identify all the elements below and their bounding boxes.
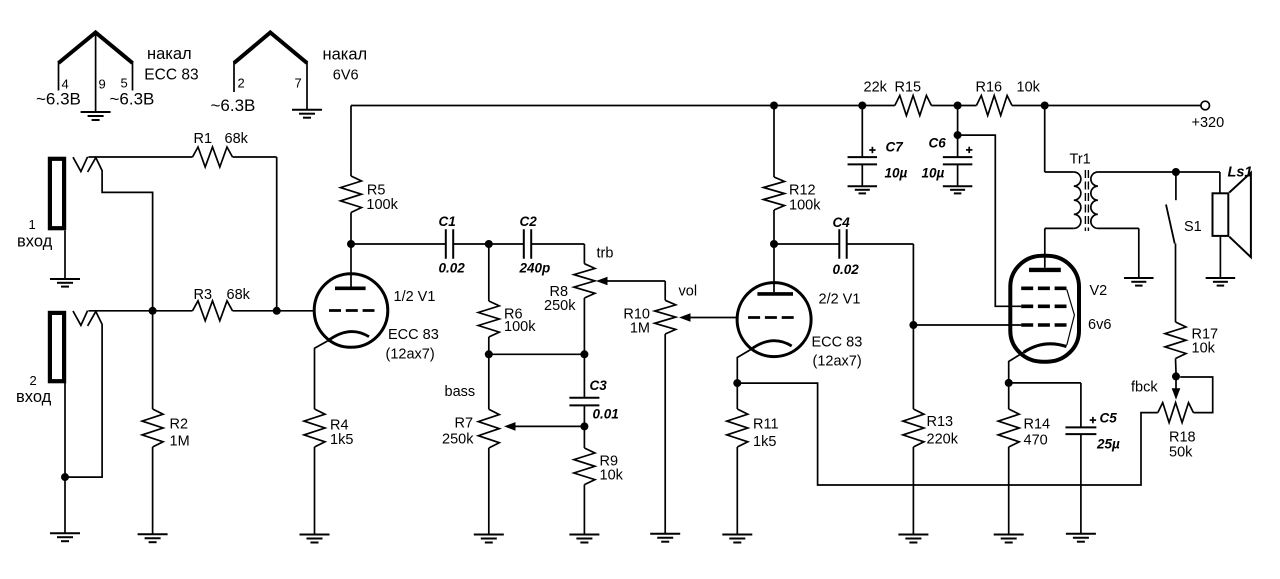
capacitor C2: [524, 229, 531, 259]
ground C5: [1066, 534, 1096, 542]
wire feedback cathode to R18: [737, 383, 1158, 485]
label C5 value 25u: [1096, 437, 1120, 452]
svg-text:7: 7: [295, 76, 302, 91]
svg-text:470: 470: [1024, 433, 1048, 449]
tube V2 screen grid: [1021, 304, 1066, 308]
label nakal 6V6: [323, 46, 368, 84]
resistor R17: [1165, 322, 1186, 373]
potentiometer R7: [478, 354, 499, 534]
capacitor C4: [839, 229, 846, 259]
svg-text:68k: 68k: [227, 287, 251, 303]
svg-text:9: 9: [99, 77, 106, 92]
svg-text:R1: R1: [194, 131, 213, 147]
wire R1 to grid node: [233, 157, 277, 311]
label C7 value 10u: [885, 166, 908, 181]
label R1 68k: [194, 131, 249, 147]
svg-text:C3: C3: [590, 378, 608, 393]
ground R4: [300, 535, 330, 543]
svg-text:10µ: 10µ: [885, 166, 908, 181]
wire C4 to R13 node: [847, 244, 914, 325]
R7 wiper arrow: [504, 422, 584, 431]
svg-text:R7: R7: [455, 416, 474, 432]
wire Tr1 primary to V2 plate: [1045, 228, 1074, 230]
ground R7: [474, 535, 504, 543]
resistor R3: [193, 301, 233, 321]
tube V2 cathode: [1024, 344, 1067, 353]
ground R11: [722, 535, 752, 543]
svg-text:1k5: 1k5: [753, 434, 776, 450]
label nakal ECC 83: [144, 45, 198, 83]
svg-text:68k: 68k: [225, 131, 249, 147]
ground C6: [943, 186, 973, 193]
node jack J2 sleeve-switch junction: [61, 473, 69, 481]
node C1/R6/C2: [485, 240, 493, 248]
label input 2: [16, 373, 52, 406]
resistor R14: [998, 383, 1019, 534]
tube V2 beam-cathode link: [1067, 290, 1075, 346]
tube V1a grid: [329, 309, 375, 312]
ground heater V1: [81, 112, 111, 120]
ground heater V2: [292, 110, 322, 118]
node C6/screen tap: [954, 131, 962, 139]
svg-text:Ls1: Ls1: [1228, 165, 1253, 181]
svg-text:C7: C7: [886, 140, 905, 155]
C7 polarity +: [869, 147, 875, 153]
node V1b cathode junction: [733, 379, 741, 387]
svg-text:R14: R14: [1024, 417, 1051, 433]
wire V1b cathode to R11: [737, 350, 750, 384]
svg-text:R12: R12: [789, 183, 816, 199]
svg-text:100k: 100k: [366, 197, 398, 213]
svg-text:R2: R2: [170, 417, 189, 433]
resistor R1: [193, 147, 233, 167]
svg-text:10k: 10k: [1017, 80, 1041, 96]
resistor R13: [903, 325, 924, 534]
resistor R6: [478, 244, 499, 354]
potentiometer R18: [1158, 403, 1194, 423]
capacitor C1: [446, 229, 453, 259]
svg-text:1k5: 1k5: [330, 432, 353, 448]
label R5 100k: [366, 183, 398, 213]
capacitor C7: [848, 106, 878, 186]
wire jack J2 sleeve: [64, 383, 66, 533]
label R8 250k: [544, 284, 576, 314]
svg-text:S1: S1: [1184, 219, 1202, 235]
svg-text:вход: вход: [16, 388, 52, 406]
label trb: [597, 246, 614, 262]
tube V1b ECC83 envelope: [737, 283, 811, 357]
ground jack J1: [50, 279, 80, 287]
ground Tr1 secondary: [1124, 278, 1154, 286]
svg-text:V2: V2: [1090, 283, 1108, 299]
svg-text:10k: 10k: [1192, 341, 1216, 357]
svg-text:+320: +320: [1192, 115, 1225, 131]
wire jack J1 tip to R1: [88, 156, 192, 158]
node C4/R13/V2 grid: [909, 321, 917, 329]
tube V1b plate: [757, 244, 793, 294]
wire rail to Tr1 primary: [1045, 106, 1074, 173]
svg-text:~6.3В: ~6.3В: [211, 96, 256, 115]
speaker Ls1: [1213, 173, 1251, 258]
label ~6.3V 6V6: [211, 96, 256, 115]
wire S1 node to speaker: [1176, 172, 1220, 193]
wire R5 node to C1: [351, 243, 446, 245]
svg-text:1: 1: [29, 217, 36, 232]
svg-text:~6.3В: ~6.3В: [110, 89, 155, 108]
svg-text:22k: 22k: [864, 80, 888, 96]
label C7: [886, 140, 905, 155]
pin 7 label: [295, 76, 302, 91]
heater symbol V2 6V6 filament: [234, 33, 307, 110]
label C6 value 10u: [922, 166, 945, 181]
tube V1a cathode: [328, 332, 370, 341]
label Ls1: [1228, 165, 1253, 181]
label bass: [445, 384, 476, 400]
svg-text:1M: 1M: [630, 321, 650, 337]
wire node to C2: [489, 243, 524, 245]
label C4 value 0.02: [833, 262, 860, 277]
label R7 250k: [442, 416, 474, 448]
node R12/V1b plate/C4: [770, 240, 778, 248]
node R6/R7: [485, 350, 493, 358]
jack J1 switch contact wire: [88, 158, 153, 311]
wire R12 node to C4: [774, 243, 839, 245]
svg-text:25µ: 25µ: [1096, 437, 1120, 452]
svg-text:220k: 220k: [927, 432, 959, 448]
Tr1 secondary winding: [1091, 172, 1098, 228]
wire V2 cathode to R14: [1009, 352, 1024, 383]
svg-text:ECC 83: ECC 83: [388, 327, 439, 343]
svg-text:50k: 50k: [1169, 445, 1193, 461]
potentiometer R8: [574, 264, 595, 355]
tube V2 beam plates: [1021, 286, 1066, 290]
potentiometer R10: [655, 281, 676, 533]
node rail/R12: [770, 102, 778, 110]
label +320: [1192, 115, 1225, 131]
node R1/R3 junction: [273, 307, 281, 315]
resistor R9: [574, 426, 595, 534]
svg-text:2: 2: [30, 373, 37, 388]
label R13 220k: [927, 414, 959, 448]
node R8/C3: [580, 350, 588, 358]
svg-text:C6: C6: [929, 136, 947, 151]
tube V1a plate: [335, 244, 366, 288]
svg-text:0.02: 0.02: [439, 261, 466, 276]
jack J1 tip contact: [73, 157, 88, 172]
label 1/2 V1: [394, 289, 436, 305]
resistor R11: [727, 383, 748, 534]
resistor R2: [142, 311, 163, 534]
capacitor C5: [1009, 383, 1097, 533]
label R12 100k: [789, 183, 821, 214]
label C2 value 240p: [519, 261, 551, 276]
svg-text:C1: C1: [439, 214, 456, 229]
R18 wiper arrow: [1172, 376, 1181, 399]
label 2/2 V1: [819, 292, 861, 308]
svg-text:C2: C2: [520, 214, 538, 229]
label R14 470: [1024, 417, 1051, 449]
svg-text:вход: вход: [17, 232, 53, 250]
wire R3 left: [153, 310, 193, 312]
input jack J2 body: [50, 313, 64, 381]
pin 4 label: [62, 77, 69, 92]
svg-text:накал: накал: [147, 45, 192, 63]
label C1 value 0.02: [439, 261, 466, 276]
jack J2 tip contact: [73, 311, 88, 326]
node secondary/S1/speaker: [1172, 168, 1180, 176]
label R10 1M: [623, 307, 650, 337]
svg-text:2: 2: [238, 76, 245, 91]
resistor R12: [764, 106, 785, 245]
svg-text:1M: 1M: [170, 434, 190, 450]
label R17 10k: [1192, 327, 1219, 357]
ground R13: [898, 535, 928, 543]
label C5: [1100, 411, 1118, 426]
svg-text:R11: R11: [753, 417, 779, 433]
wire to V2 grid: [913, 324, 1021, 326]
label R9 10k: [600, 454, 624, 484]
svg-text:10µ: 10µ: [922, 166, 945, 181]
label 22k R15: [864, 80, 922, 96]
label vol: [679, 284, 698, 300]
ground R10: [650, 534, 680, 542]
label R3 68k: [194, 287, 251, 303]
svg-text:C4: C4: [833, 215, 851, 230]
label R11 1k5: [753, 417, 779, 451]
ground R9: [569, 535, 599, 543]
tube V2 plate: [1029, 229, 1061, 270]
svg-text:1/2 V1: 1/2 V1: [394, 289, 436, 305]
svg-text:6v6: 6v6: [1088, 317, 1111, 333]
svg-text:240p: 240p: [519, 261, 551, 276]
input jack J1 body: [50, 159, 64, 228]
wire B+ rail: [351, 105, 1201, 107]
terminal +320: [1201, 101, 1210, 110]
wire R6 to C3 node row: [489, 353, 585, 355]
Tr1 core: [1085, 170, 1088, 231]
ground R2: [138, 534, 168, 542]
label Tr1: [1070, 152, 1091, 168]
capacitor C3: [569, 354, 599, 426]
label R18 50k: [1169, 430, 1196, 461]
svg-text:накал: накал: [323, 46, 368, 64]
wire V1a cathode to R4: [315, 341, 328, 409]
svg-text:R16: R16: [976, 80, 1003, 96]
wire Tr1 secondary bottom to ground: [1098, 228, 1139, 277]
svg-text:R3: R3: [194, 287, 213, 303]
tube V1b grid: [748, 316, 798, 319]
node C3/R9 wiper junction: [580, 422, 588, 430]
svg-text:2/2 V1: 2/2 V1: [819, 292, 861, 308]
svg-text:0.01: 0.01: [593, 407, 619, 422]
svg-text:(12ax7): (12ax7): [813, 354, 862, 370]
label ~6.3V right: [110, 89, 155, 108]
svg-text:6V6: 6V6: [333, 68, 359, 84]
svg-text:250k: 250k: [442, 432, 474, 448]
pin 5 label: [121, 76, 128, 91]
label C4: [833, 215, 851, 230]
wire jack J1 sleeve: [64, 231, 66, 279]
wire speaker to ground: [1219, 237, 1221, 278]
tube V1a ECC83 envelope: [314, 274, 388, 348]
label 6v6: [1088, 317, 1111, 333]
svg-text:fbck: fbck: [1131, 380, 1158, 396]
jack J2 switch contact wire: [65, 312, 102, 478]
node R17/R18 wiper: [1172, 372, 1180, 380]
tube V1b cathode: [751, 341, 792, 350]
tube V2 6V6 envelope: [1010, 256, 1079, 362]
label S1: [1184, 219, 1202, 235]
node rail/C7: [858, 102, 866, 110]
svg-text:R13: R13: [927, 414, 954, 430]
svg-text:(12ax7): (12ax7): [386, 347, 435, 363]
Tr1 primary winding: [1074, 172, 1081, 228]
pin 2 label: [238, 76, 245, 91]
svg-text:bass: bass: [445, 384, 476, 400]
svg-text:ECC 83: ECC 83: [144, 67, 198, 84]
node R5/C1 junction: [347, 240, 355, 248]
wire R3 to V1 grid: [233, 310, 315, 312]
resistor R5: [341, 106, 362, 245]
switch S1: [1166, 172, 1176, 322]
C5 polarity +: [1090, 417, 1096, 423]
svg-text:vol: vol: [679, 284, 698, 300]
label fbck: [1131, 380, 1158, 396]
label V1a ECC 83 (12ax7): [386, 327, 439, 363]
wire C2 to R8: [531, 244, 584, 264]
wire C1 to node: [453, 243, 489, 245]
svg-text:5: 5: [121, 76, 128, 91]
node rail/Tr1 primary: [1041, 102, 1049, 110]
wire R18 right to wiper node: [1180, 377, 1213, 413]
wire Tr1 secondary top: [1098, 171, 1176, 173]
svg-text:Tr1: Tr1: [1070, 152, 1091, 168]
label C3 value 0.01: [593, 407, 619, 422]
svg-text:C5: C5: [1100, 411, 1118, 426]
heater symbol V1 ECC83 filament: [59, 33, 133, 113]
svg-text:trb: trb: [597, 246, 614, 262]
label C6: [929, 136, 947, 151]
pin 9 label: [99, 77, 106, 92]
svg-text:ECC 83: ECC 83: [812, 335, 863, 351]
tube V2 control grid: [1021, 323, 1066, 327]
node V2 cathode junction: [1005, 379, 1013, 387]
resistor R16: [976, 96, 1012, 116]
wire jack J2 tip to node: [88, 310, 152, 312]
resistor R4: [304, 409, 325, 534]
svg-text:~6.3В: ~6.3В: [36, 89, 81, 108]
ground jack J2: [50, 533, 80, 541]
label V1b ECC 83 (12ax7): [812, 335, 863, 370]
node J2/R2/R3: [149, 307, 157, 315]
label R16 10k: [976, 80, 1041, 96]
ground C7: [848, 186, 878, 193]
label V2: [1090, 283, 1108, 299]
label R6 100k: [504, 307, 536, 336]
label R2 1M: [170, 417, 190, 450]
node rail R15/R16: [954, 102, 962, 110]
svg-text:100k: 100k: [504, 319, 536, 335]
C6 polarity +: [966, 147, 972, 153]
svg-text:R18: R18: [1169, 430, 1196, 446]
label ~6.3V left: [36, 89, 81, 108]
wire screen supply to V2: [958, 135, 1022, 306]
R10 wiper arrow: [679, 313, 737, 322]
svg-text:250k: 250k: [544, 298, 576, 314]
svg-text:0.02: 0.02: [833, 262, 860, 277]
resistor R15: [895, 96, 932, 116]
svg-text:100k: 100k: [789, 198, 821, 214]
svg-text:R15: R15: [895, 80, 922, 96]
capacitor C6: [943, 106, 973, 186]
R8 wiper arrow: [596, 277, 665, 286]
label input 1: [17, 217, 53, 250]
ground speaker: [1206, 278, 1236, 286]
label C3: [590, 378, 608, 393]
label C1: [439, 214, 456, 229]
label R4 1k5: [330, 418, 353, 449]
svg-text:10k: 10k: [600, 468, 624, 484]
ground R14: [994, 535, 1024, 543]
label C2: [520, 214, 538, 229]
